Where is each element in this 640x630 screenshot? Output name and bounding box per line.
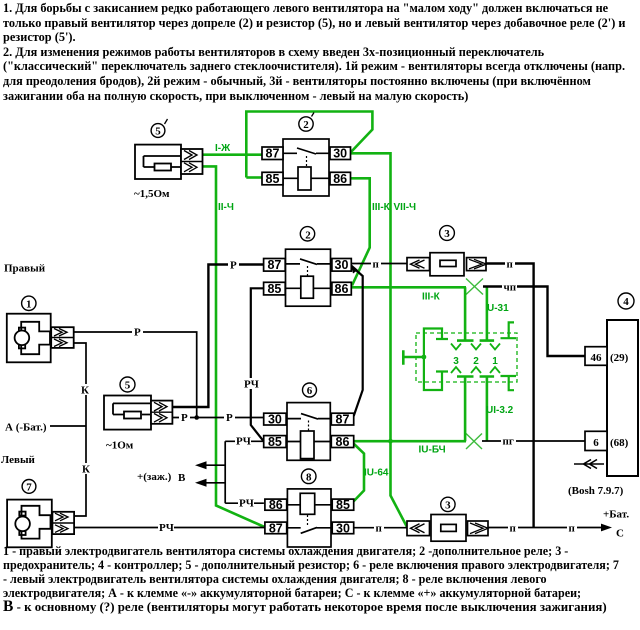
- switch contact chevrons position 1: [490, 344, 500, 374]
- svg-text:85: 85: [267, 282, 281, 296]
- wire П fuse3 to down: [486, 264, 534, 528]
- motor M1: [7, 314, 74, 363]
- wire В arrow 2: [195, 479, 225, 487]
- switch hook top right: [501, 322, 517, 338]
- svg-text:2: 2: [305, 230, 311, 242]
- svg-text:3: 3: [444, 228, 450, 240]
- fuse 3 bottom: [407, 515, 488, 542]
- svg-text:Р: Р: [181, 412, 188, 424]
- relay 6 designator circled 6: [303, 383, 317, 397]
- node arrow at relay2 30: [351, 264, 359, 274]
- svg-text:U-31: U-31: [487, 303, 509, 314]
- wire P motor1: [74, 332, 197, 418]
- svg-text:чп: чп: [504, 282, 517, 294]
- svg-text:В: В: [178, 472, 186, 484]
- fuse 3 top designator circled 3: [440, 226, 455, 241]
- svg-text:Правый: Правый: [4, 263, 46, 275]
- wire P horizontal to relay6: [172, 417, 263, 419]
- svg-text:(Bosh 7.9.7): (Bosh 7.9.7): [568, 485, 624, 497]
- svg-text:Р: Р: [134, 327, 141, 339]
- motor M7 designator circled 7: [22, 480, 36, 494]
- svg-text:IU-БЧ: IU-БЧ: [419, 445, 446, 456]
- relay 2': [262, 139, 351, 196]
- svg-text:85: 85: [266, 172, 280, 186]
- resistor 5: [104, 396, 172, 430]
- label Р resistor5: [179, 412, 190, 424]
- relay 2: [264, 249, 352, 306]
- wire П relay2 30 to fuse3: [351, 263, 407, 265]
- label РЧ to relay8 86: [238, 498, 254, 510]
- switch S1 3-position dashed body: [416, 333, 517, 382]
- svg-text:РЧ: РЧ: [159, 522, 174, 534]
- label П after fuse3: [505, 259, 515, 271]
- fuse 3 bottom designator circled 3: [441, 497, 455, 511]
- label П mid bottom: [508, 523, 518, 535]
- svg-text:п: п: [569, 523, 576, 535]
- node X cut upper: [466, 279, 483, 295]
- wire resistor5 to relay2 87: [172, 265, 263, 408]
- wire C arrowhead: [601, 524, 612, 532]
- relay 8: [265, 489, 354, 547]
- svg-text:~1Ом: ~1Ом: [106, 440, 134, 452]
- svg-text:UI-3.2: UI-3.2: [486, 405, 514, 416]
- svg-text:А (-Бат.): А (-Бат.): [5, 422, 47, 434]
- wire ЧП to pin 46: [483, 287, 585, 357]
- wire II-Ч: [203, 166, 265, 527]
- svg-text:87: 87: [267, 258, 281, 272]
- fuse 3 top: [407, 253, 487, 276]
- wire РЧ relay2 85 to relay6 85: [251, 288, 264, 441]
- svg-text:Р: Р: [230, 260, 237, 272]
- wire П relay8 30 to fuse3 bottom: [352, 527, 407, 529]
- svg-text:4: 4: [623, 296, 629, 308]
- svg-text:87: 87: [266, 147, 280, 161]
- svg-text:30: 30: [268, 413, 282, 427]
- label Р junction: [224, 412, 235, 424]
- relay 2' terminal digits: [266, 147, 348, 186]
- relay 8 terminal digits: [269, 498, 350, 535]
- node P junction: [194, 415, 199, 420]
- motor M1 designator circled 1: [22, 296, 36, 310]
- svg-text:85: 85: [268, 435, 282, 449]
- svg-text:1: 1: [26, 299, 32, 311]
- relay 6: [264, 403, 354, 461]
- svg-text:3: 3: [445, 500, 451, 512]
- label +заж В: [137, 471, 186, 484]
- svg-text:1: 1: [492, 356, 498, 367]
- label П bottom right: [567, 523, 577, 535]
- svg-text:VII-Ч: VII-Ч: [394, 202, 417, 213]
- svg-text:+(заж.): +(заж.): [137, 471, 172, 483]
- svg-text:IU-64: IU-64: [364, 468, 389, 479]
- svg-text:К: К: [81, 385, 89, 397]
- wire РЧ motor7 to relay8 87: [74, 527, 265, 529]
- switch hook bottom right: [501, 376, 517, 390]
- svg-text:87: 87: [269, 522, 283, 536]
- svg-text:пг: пг: [503, 436, 514, 448]
- wire A battery minus: [50, 425, 86, 427]
- svg-text:п: п: [376, 523, 383, 535]
- relay 8 designator circled 8: [301, 469, 316, 484]
- wire III-К horizontal: [352, 286, 466, 289]
- label Р motor1: [132, 327, 143, 339]
- svg-text:п: п: [507, 259, 514, 271]
- wire green top bus: [246, 112, 372, 178]
- resistor 5' designator circled 5 prime: [151, 119, 167, 138]
- node VII-Ч junction: [388, 439, 393, 444]
- svg-text:Р: Р: [226, 412, 233, 424]
- wire I-Ж: [203, 153, 262, 156]
- svg-text:III-К: III-К: [422, 292, 441, 303]
- svg-text:6: 6: [593, 437, 599, 449]
- wire switch bottom stub left: [457, 377, 474, 442]
- node X cut lower: [466, 434, 482, 450]
- switch contact chevrons position 3: [451, 344, 461, 374]
- svg-text:8: 8: [306, 472, 312, 484]
- wire В feed vertical: [225, 441, 264, 503]
- wire III-К vertical: [350, 178, 370, 285]
- svg-text:2: 2: [303, 119, 309, 131]
- svg-text:(29): (29): [610, 352, 629, 364]
- svg-text:III-К: III-К: [372, 202, 391, 213]
- label РЧ to relay6 85: [235, 436, 251, 448]
- wire switch top stub right: [480, 287, 495, 341]
- svg-text:87: 87: [336, 413, 350, 427]
- svg-text:5: 5: [155, 126, 161, 138]
- relay 6 terminal digits: [268, 413, 350, 450]
- svg-text:+Бат.: +Бат.: [603, 509, 629, 521]
- svg-text:РЧ: РЧ: [236, 436, 251, 448]
- resistor 5 designator circled 5: [120, 377, 135, 392]
- switch arm top: [424, 329, 448, 358]
- wire relay2 30 to relay6 87: [351, 266, 362, 416]
- wire П fuse3 bottom to C: [488, 527, 604, 529]
- controller designator circled 4: [618, 293, 634, 309]
- svg-text:2: 2: [473, 356, 479, 367]
- node lever junction: [422, 355, 427, 360]
- switch arm bottom: [424, 357, 448, 390]
- svg-text:30: 30: [333, 147, 347, 161]
- svg-text:86: 86: [335, 282, 349, 296]
- svg-text:6: 6: [307, 385, 313, 397]
- wire VII-Ч: [351, 153, 407, 527]
- label ЧП: [502, 282, 517, 294]
- label Р relay2: [228, 260, 239, 272]
- relay 2' designator circled 2 prime: [299, 113, 314, 132]
- label РЧ vertical wire: [243, 378, 259, 391]
- wire 85 of relay 2': [246, 176, 262, 179]
- svg-text:(68): (68): [610, 437, 629, 449]
- wire switch top stub left: [457, 287, 474, 340]
- svg-text:85: 85: [336, 498, 350, 512]
- svg-text:~1,5Ом: ~1,5Ом: [134, 188, 170, 200]
- switch contact chevrons position 2: [471, 344, 481, 374]
- svg-text:30: 30: [335, 258, 349, 272]
- wire K motor1 to motor7: [74, 343, 86, 516]
- label ПГ: [501, 436, 516, 448]
- svg-text:РЧ: РЧ: [244, 379, 259, 391]
- svg-text:86: 86: [269, 498, 283, 512]
- motor M7: [7, 500, 74, 548]
- svg-text:46: 46: [591, 352, 603, 364]
- svg-text:7: 7: [26, 482, 32, 494]
- label РЧ motor7: [158, 522, 174, 534]
- svg-text:I-Ж: I-Ж: [215, 143, 231, 154]
- controller U4 box: [585, 320, 638, 476]
- svg-text:86: 86: [333, 172, 347, 186]
- svg-text:3: 3: [453, 356, 459, 367]
- wire relay6 86 to X cut: [352, 440, 466, 443]
- svg-text:К: К: [82, 464, 90, 476]
- wire switch bottom stub right: [480, 377, 495, 442]
- svg-text:5: 5: [125, 380, 131, 392]
- svg-text:РЧ: РЧ: [239, 498, 254, 510]
- svg-text:п: п: [510, 523, 517, 535]
- resistor 5': [135, 145, 203, 179]
- continuation arrow double chevron: [574, 460, 604, 469]
- relay 2 terminal digits: [267, 258, 348, 296]
- svg-text:86: 86: [336, 435, 350, 449]
- wire ПГ to pin 6: [482, 440, 586, 442]
- switch lever: [403, 350, 424, 365]
- svg-text:С: С: [616, 528, 624, 540]
- relay 2 designator circled 2: [300, 227, 314, 242]
- wire В arrow 1: [195, 461, 225, 469]
- svg-text:п: п: [373, 259, 380, 271]
- wire IU-64: [352, 443, 364, 503]
- label П after relay2: [371, 259, 381, 271]
- label П relay8: [374, 523, 384, 535]
- svg-text:30: 30: [336, 522, 350, 536]
- svg-text:Левый: Левый: [1, 454, 36, 466]
- label К upper: [79, 384, 90, 397]
- svg-text:II-Ч: II-Ч: [218, 202, 234, 213]
- label К lower: [80, 463, 91, 476]
